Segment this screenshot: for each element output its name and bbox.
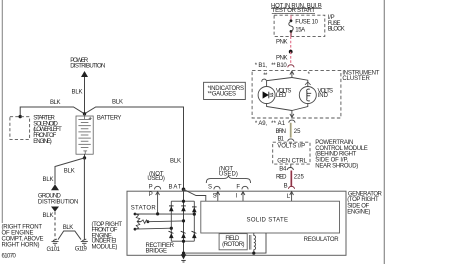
label (NOT USED) over S F: [219, 166, 238, 177]
label powertrain control module: [315, 140, 368, 170]
svg-text:BLK: BLK: [43, 177, 54, 183]
diode lower right: [192, 231, 197, 238]
instrument cluster (dashed box): [252, 71, 341, 118]
wire stator phase C (to left rail): [135, 227, 171, 230]
svg-text:VOLTS I/P: VOLTS I/P: [277, 144, 305, 150]
rectifier top bus: [171, 200, 194, 202]
connector arc B1/B10: [288, 65, 294, 67]
rectifier right rail: [193, 201, 195, 241]
rectifier bottom bus: [171, 240, 194, 242]
svg-text:DISTRIBUTION: DISTRIBUTION: [38, 199, 79, 205]
label VOLTS LED: [276, 88, 292, 99]
svg-text:CLUSTER: CLUSTER: [342, 76, 370, 82]
diode upper center: [181, 206, 186, 211]
terminal arrow out of cluster: [290, 111, 294, 118]
wire stub B4: [290, 164, 292, 167]
svg-text:BLK: BLK: [112, 99, 123, 105]
node POWER DISTRIBUTION (off-page arrow): [70, 58, 105, 77]
I/P fuse block (dashed box): [274, 15, 325, 36]
svg-text:DISTRIBUTION: DISTRIBUTION: [70, 64, 105, 70]
label I/P FUSE BLOCK: [328, 15, 345, 32]
page border left: [1, 0, 3, 223]
wire BRN 25: [289, 123, 292, 138]
svg-text:TEST OR START: TEST OR START: [272, 8, 316, 14]
svg-text:ENGINE): ENGINE): [33, 139, 52, 145]
svg-text:GEN CTRL: GEN CTRL: [277, 158, 307, 164]
brace over S and F terminals: [206, 176, 250, 183]
generator case ground: [181, 254, 187, 262]
diode lower left: [169, 231, 174, 238]
svg-text:USED): USED): [147, 176, 165, 182]
wire battery to G119: [83, 158, 85, 239]
field coil: [254, 233, 256, 253]
starter solenoid (dashed box): [10, 117, 30, 140]
junction dot battery positive: [83, 112, 86, 115]
fuse FUSE 10 15A: [289, 19, 293, 32]
svg-text:**GAUGES: **GAUGES: [208, 92, 236, 98]
label starter solenoid: [33, 115, 62, 145]
terminal arrow into cluster: [290, 71, 294, 77]
svg-text:* A9,: * A9,: [255, 121, 268, 127]
svg-text:25: 25: [294, 129, 301, 135]
svg-text:(TOP RIGHT: (TOP RIGHT: [347, 197, 379, 203]
field coil core lines: [248, 235, 250, 250]
ground G101: [52, 239, 59, 245]
connector hook LED branch: [262, 79, 267, 82]
svg-text:RIGHT HORN): RIGHT HORN): [2, 242, 40, 248]
svg-text:** A1: ** A1: [271, 121, 286, 127]
svg-text:BLK: BLK: [63, 225, 74, 231]
svg-text:G101: G101: [47, 247, 61, 253]
wire merge below indicators: [267, 104, 308, 111]
wire battery negative stub: [84, 154, 86, 158]
svg-text:LED: LED: [276, 93, 287, 99]
wire pink stub into fuse: [290, 15, 292, 20]
wire BAT rail (vertical through rectifier): [183, 189, 185, 253]
wire dashed to G101: [54, 212, 56, 240]
field rotor box: [219, 234, 247, 250]
svg-text:PNK: PNK: [276, 40, 288, 46]
label INSTRUMENT CLUSTER: [342, 70, 379, 81]
svg-text:61070: 61070: [2, 254, 17, 260]
battery: [76, 114, 93, 154]
rectifier left rail: [170, 201, 172, 241]
wire RED 225: [290, 171, 292, 187]
generator box: [127, 191, 346, 255]
svg-text:BLK: BLK: [72, 89, 83, 95]
stator windings: [135, 214, 148, 229]
label location G101: [2, 225, 44, 249]
svg-text:BATTERY: BATTERY: [97, 115, 122, 121]
indicator VOLTS IND (gauge): [299, 87, 316, 104]
svg-text:S: S: [208, 184, 212, 190]
svg-text:PNK: PNK: [276, 56, 288, 62]
label GENERATOR location: [347, 192, 382, 216]
junction dot at starter solenoid: [19, 115, 22, 118]
svg-text:FUSE 10: FUSE 10: [295, 19, 318, 25]
connector hook IND branch: [305, 82, 311, 85]
wire PNK fuse to splice (dark red in box, pink dashed below): [290, 32, 292, 36]
svg-text:REGULATOR: REGULATOR: [304, 237, 340, 243]
svg-text:STATOR: STATOR: [131, 206, 157, 212]
svg-text:BLK: BLK: [50, 100, 61, 106]
svg-text:15A: 15A: [295, 28, 305, 34]
wire stator phase B (to center rail): [148, 220, 184, 223]
svg-text:L: L: [287, 194, 291, 200]
svg-text:NEAR SHROUD): NEAR SHROUD): [315, 164, 358, 170]
svg-text:B1: B1: [278, 136, 285, 142]
svg-text:I: I: [236, 193, 238, 199]
splice junction dot: [289, 50, 293, 54]
svg-text:F: F: [236, 184, 240, 190]
ground G119: [81, 239, 88, 245]
svg-text:SOLID STATE: SOLID STATE: [247, 217, 289, 223]
wire branch to VOLTS IND: [292, 78, 308, 87]
svg-text:GROUND: GROUND: [38, 193, 62, 199]
svg-text:BRN: BRN: [276, 129, 287, 135]
wire from power distribution to battery junction: [84, 77, 86, 114]
wire jumper G101 to G119: [58, 231, 81, 240]
wire branch to VOLTS LED: [267, 78, 292, 87]
label RECTIFIER BRIDGE: [146, 243, 175, 255]
svg-text:BAT: BAT: [169, 184, 182, 190]
diode upper left: [169, 206, 174, 211]
svg-text:BLK: BLK: [170, 159, 181, 165]
svg-text:RED: RED: [276, 175, 287, 181]
connector arc B (generator L): [288, 186, 294, 188]
connector arc B4: [287, 168, 293, 170]
label HOT IN RUN, BULB TEST OR START: [271, 3, 322, 14]
label VOLTS IND: [318, 88, 334, 99]
svg-text:** B10: ** B10: [271, 63, 287, 69]
generator internal ground wire: [184, 233, 267, 253]
svg-text:BRIDGE: BRIDGE: [146, 249, 168, 255]
svg-text:BLK: BLK: [64, 168, 75, 174]
svg-text:BLK: BLK: [43, 213, 54, 219]
svg-text:G119: G119: [75, 247, 88, 253]
solid state regulator box: [201, 201, 340, 233]
indicator VOLTS LED: [258, 87, 275, 104]
label (NOT USED) over P: [147, 171, 165, 182]
label location G119: [92, 222, 123, 250]
wire top horizontal BLK bus (solenoid to BAT): [20, 107, 183, 189]
svg-text:P: P: [149, 185, 153, 191]
svg-text:ENGINE): ENGINE): [347, 210, 370, 216]
diode upper right: [192, 207, 197, 212]
label FIELD (ROTOR): [222, 236, 244, 248]
wire slant to ground distribution: [55, 158, 85, 184]
svg-text:B4: B4: [279, 167, 287, 173]
svg-text:**: **: [263, 73, 268, 79]
svg-text:* B1,: * B1,: [255, 63, 268, 69]
svg-text:B: B: [284, 183, 288, 189]
svg-text:(ROTOR): (ROTOR): [222, 242, 244, 248]
svg-text:BLOCK: BLOCK: [328, 27, 345, 33]
svg-text:225: 225: [294, 175, 305, 181]
wire BAT sense to regulator: [184, 189, 206, 201]
connector arc B1: [288, 139, 294, 141]
connector arc A9/A1: [289, 120, 295, 122]
junction dot battery negative: [83, 156, 86, 159]
page border right: [383, 0, 385, 264]
svg-text:*: *: [308, 72, 311, 78]
svg-text:P: P: [149, 192, 153, 198]
legend box INDICATORS GAUGES: [204, 82, 246, 99]
powertrain control module (dashed box): [273, 142, 310, 164]
diode lower center: [181, 231, 186, 238]
node GROUND DISTRIBUTION (off-page arrow up): [38, 184, 79, 211]
svg-text:MODULE): MODULE): [92, 244, 118, 250]
svg-text:IND: IND: [318, 93, 329, 99]
wire PNK splice to cluster connector: [290, 52, 292, 65]
wire stator phase A (P tap to right rail): [135, 213, 194, 215]
